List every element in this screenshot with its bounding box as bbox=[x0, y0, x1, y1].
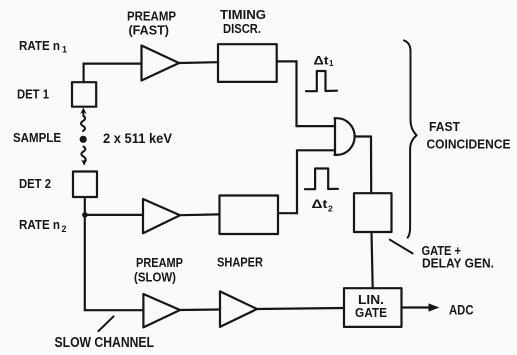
svg-text:DET 1: DET 1 bbox=[17, 87, 49, 102]
box linear gate bbox=[344, 288, 402, 327]
arrowhead photon up bbox=[80, 108, 86, 115]
svg-text:2 x 511 keV: 2 x 511 keV bbox=[103, 131, 172, 146]
box DET2 bbox=[73, 172, 97, 198]
wire junction to preamp det2 bbox=[85, 214, 143, 216]
wire timing discr 2 output bbox=[278, 212, 297, 214]
svg-text:DET 2: DET 2 bbox=[19, 176, 51, 191]
svg-text:SLOW CHANNEL: SLOW CHANNEL bbox=[55, 335, 155, 351]
brace fast coincidence bbox=[404, 40, 417, 237]
svg-text:DELAY GEN.: DELAY GEN. bbox=[422, 256, 494, 271]
photon squiggle down to DET2 bbox=[81, 147, 85, 164]
AND gate fast coincidence bbox=[335, 118, 355, 155]
wire preamp det2 to timing discr 2 bbox=[180, 213, 220, 216]
svg-text:(SLOW): (SLOW) bbox=[134, 270, 176, 285]
junction node rate n2 bbox=[82, 212, 88, 218]
svg-text:Δt: Δt bbox=[314, 54, 329, 68]
pointer line slow channel label bbox=[98, 316, 113, 331]
svg-text:COINCIDENCE: COINCIDENCE bbox=[427, 137, 511, 152]
svg-text:ADC: ADC bbox=[449, 302, 474, 318]
wire to AND lower input bbox=[297, 149, 335, 151]
box DET1 bbox=[72, 82, 96, 107]
pulse symbol dt1 bbox=[306, 71, 337, 91]
arrowhead ADC bbox=[429, 303, 440, 311]
svg-text:TIMING: TIMING bbox=[220, 7, 266, 22]
amplifier preamp slow bbox=[143, 294, 180, 327]
svg-text:RATE n: RATE n bbox=[19, 217, 60, 232]
svg-text:Δt: Δt bbox=[312, 197, 328, 211]
photon squiggle up to DET1 bbox=[81, 113, 85, 132]
svg-text:PREAMP: PREAMP bbox=[136, 255, 183, 270]
wire to preamp slow bbox=[85, 309, 144, 311]
svg-text:(FAST): (FAST) bbox=[129, 23, 170, 38]
wire shaper to lin gate bbox=[257, 308, 344, 309]
svg-text:FAST: FAST bbox=[429, 119, 460, 134]
pointer line gate+delay label bbox=[390, 240, 413, 254]
svg-text:2: 2 bbox=[62, 224, 67, 234]
arrowhead photon down bbox=[81, 160, 87, 166]
wire DET1 top to corner bbox=[82, 64, 84, 83]
svg-text:PREAMP: PREAMP bbox=[127, 9, 176, 24]
wire DET2 bottom to junction bbox=[84, 197, 86, 215]
box gate + delay generator bbox=[354, 193, 392, 232]
svg-text:SHAPER: SHAPER bbox=[217, 255, 264, 270]
wire vertical down to AND input bbox=[295, 61, 297, 126]
amplifier shaper bbox=[220, 291, 257, 327]
wire corner to preamp fast bbox=[84, 62, 142, 64]
wire preamp slow to shaper bbox=[180, 308, 220, 311]
wire junction down slow channel bbox=[84, 215, 86, 310]
wire AND output bbox=[355, 135, 371, 137]
wire down to gate+delay box bbox=[370, 137, 372, 194]
sample dot bbox=[80, 136, 87, 143]
svg-text:DISCR.: DISCR. bbox=[223, 21, 261, 36]
box timing discriminator 2 bbox=[220, 196, 279, 235]
wire preamp fast to timing discr 1 bbox=[179, 61, 218, 64]
wire gate+delay to lin gate bbox=[372, 232, 373, 288]
svg-text:1: 1 bbox=[62, 45, 67, 55]
wire timing discr 1 output bbox=[277, 60, 297, 62]
amplifier preamp det2 fast bbox=[143, 199, 180, 233]
wire vertical up to AND input bbox=[296, 150, 298, 213]
wire lin gate to ADC arrow bbox=[402, 306, 431, 308]
pulse symbol dt2 bbox=[305, 169, 338, 190]
svg-text:SAMPLE: SAMPLE bbox=[13, 130, 61, 145]
svg-text:2: 2 bbox=[328, 204, 333, 214]
svg-text:GATE: GATE bbox=[355, 305, 387, 320]
svg-text:1: 1 bbox=[329, 59, 334, 68]
amplifier preamp fast bbox=[142, 46, 180, 81]
box timing discriminator 1 bbox=[218, 44, 277, 82]
wire to AND upper input bbox=[297, 125, 336, 127]
svg-text:RATE n: RATE n bbox=[19, 38, 60, 53]
